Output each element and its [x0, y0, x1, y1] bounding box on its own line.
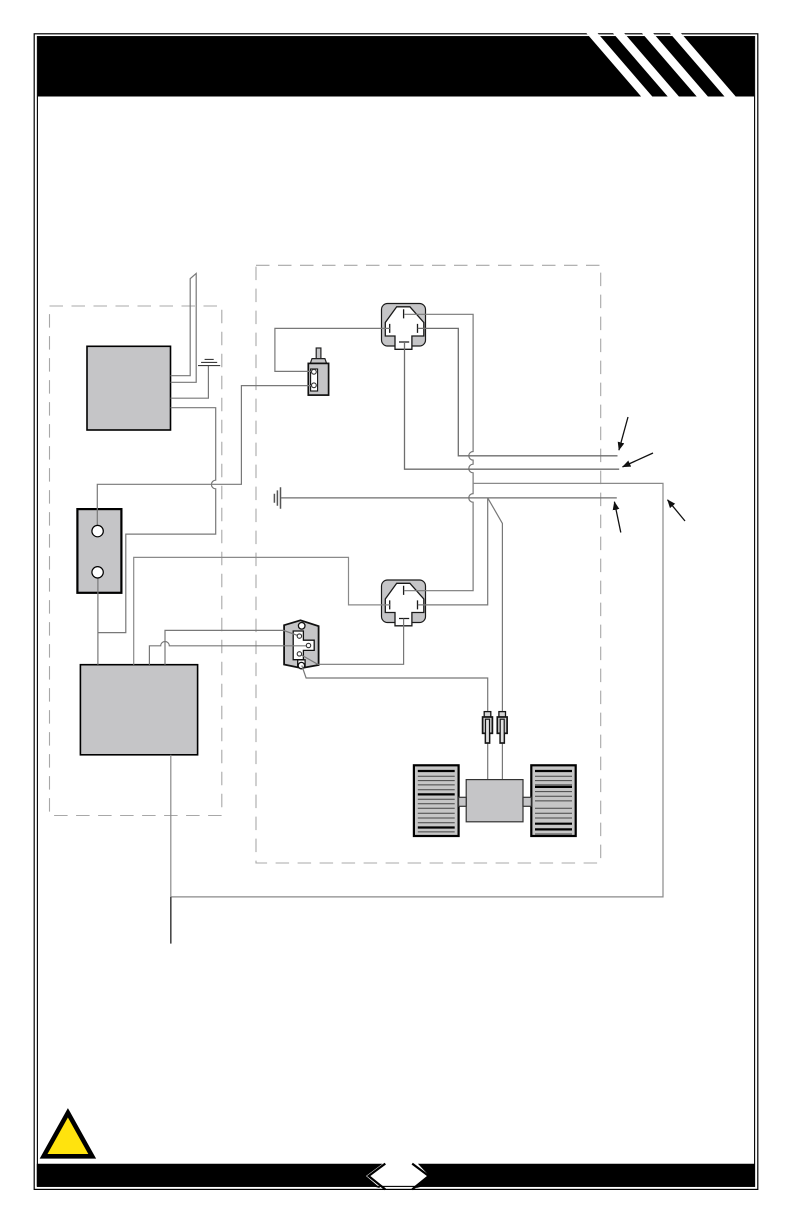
wire 1: connector C1 right pin out to harness: [418, 328, 618, 455]
wire: terminal strip top hole to switch lower pin: [97, 386, 314, 531]
switch S1 pins: [312, 369, 317, 387]
terminal strip holes: [92, 525, 103, 578]
ground G2: [274, 487, 280, 508]
dashed boundary box left: [50, 306, 222, 816]
wire: module A1 pin1-pin2 loop: [171, 273, 197, 382]
connector C1 (upper) body: [382, 304, 426, 350]
relay R1 body: [284, 620, 319, 669]
header stripe 1: [585, 32, 652, 97]
warning triangle: [44, 1113, 93, 1157]
terminal strip body: [77, 509, 121, 593]
footer chevron right: [412, 1164, 429, 1190]
header stripe 2: [612, 32, 679, 97]
wire: junction to connector C2 right pin: [418, 498, 488, 605]
header stripe 4: [668, 32, 735, 97]
wire: module A1 pin3 to ground G1: [171, 366, 209, 399]
wire: module A1 pin4 down to strip-bottom junction (hop over): [99, 408, 216, 633]
motor tab left: [459, 797, 467, 806]
motor tab right: [523, 797, 531, 806]
relay module box A2: [80, 665, 197, 755]
fuse F1: [483, 712, 493, 744]
wire: junction diagonal to fuse F2 and motor: [488, 498, 503, 780]
header stripe 3: [641, 32, 708, 97]
arrow callout 4: [668, 500, 686, 521]
footer chevron left: [369, 1164, 386, 1190]
wire 3: branch to right-side loop down to module A2 bottom: [171, 483, 663, 897]
fuse F2: [497, 712, 507, 744]
wire: relay R1 lower pin to connector C2 bottom pin: [299, 619, 403, 665]
wire: bottom stub: [170, 897, 172, 944]
ground G1: [198, 359, 220, 365]
wire: module A2 bottom lead: [170, 755, 172, 897]
wire 2: connector C1 bottom pin out to harness: [405, 342, 620, 469]
relay R1 pins: [297, 634, 311, 656]
wire: connector C1 top pin to connector C2 top pin (with hops): [404, 314, 473, 590]
arrow callout 2: [623, 453, 654, 467]
wire: relay R1 bottom tab to fuse F1 and motor: [302, 666, 488, 780]
connector C2 (lower) body: [382, 580, 426, 626]
wire 4: ground G2 out to harness: [281, 497, 617, 499]
blower wheel left: [414, 765, 459, 836]
dashed boundary box right: [256, 265, 601, 863]
wire: module A2 to relay R1 middle pin (hop): [149, 642, 308, 665]
wire: strip bottom hole down to module A2: [97, 572, 99, 664]
arrow callout 3: [614, 502, 620, 533]
wire: module A2 to connector C2 left pin (long run): [134, 557, 390, 664]
wire: module A2 to relay R1 upper pin: [165, 630, 299, 664]
switch S1 body: [308, 348, 328, 395]
header black bar: [38, 37, 754, 97]
footer bar left: [37, 1164, 383, 1188]
footer bar right: [416, 1164, 755, 1188]
arrow callout 1: [619, 417, 628, 450]
wire: connector C1 left pin to switch upper pin: [275, 328, 390, 371]
blower motor M1: [466, 780, 523, 822]
control module box A1: [87, 346, 171, 430]
blower wheel right: [531, 765, 575, 836]
